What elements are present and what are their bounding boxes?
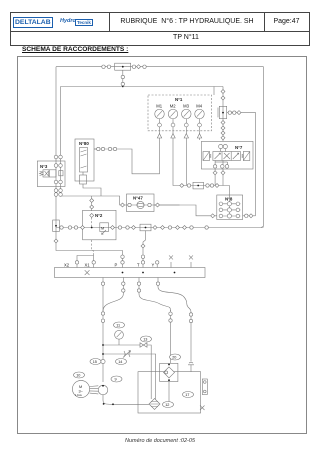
electric motor (72, 380, 89, 397)
svg-text:17: 17 (185, 393, 189, 397)
coupling (101, 312, 104, 315)
port below block (137, 282, 140, 292)
port below block (156, 282, 159, 285)
svg-text:M2: M2 (170, 103, 176, 108)
footer (0, 438, 320, 444)
port coupling X2 (75, 261, 78, 268)
page frame (17, 56, 307, 434)
svg-text:13: 13 (143, 338, 147, 342)
wire: right vertical of loop (261, 67, 264, 228)
unit N3 box (37, 161, 65, 187)
svg-text:N°80: N°80 (79, 141, 89, 146)
check valve bridge box (160, 363, 178, 381)
coupling (121, 255, 124, 258)
wire: throttle line (103, 354, 156, 399)
throttle valve 14 (123, 351, 131, 358)
wire: N7 bottom ports down (215, 169, 223, 186)
coupling (111, 226, 115, 230)
wire: bridge box to tank (168, 382, 170, 404)
wire: gauge column1 to N80 loop (94, 141, 160, 174)
hose: T port below block curving right (139, 278, 171, 312)
coupling (148, 203, 151, 206)
coupling (190, 226, 193, 229)
shut-off valve on bus (140, 224, 151, 231)
junction (174, 272, 176, 274)
wire: drop from top-line valve to second line (122, 70, 124, 87)
wire: main loop top line (56, 66, 264, 68)
label 17 (183, 392, 194, 398)
coupling pair on N3 lines (54, 164, 62, 168)
wire: N8 row3 out to right (243, 215, 256, 217)
blocked port X1 inside block (85, 270, 90, 275)
label 12 (163, 402, 174, 408)
coupling (137, 65, 141, 69)
wire: N7 below valve (215, 161, 227, 165)
port labels (64, 263, 155, 268)
wire: P port below block down to pump line (102, 278, 104, 383)
coupling (132, 226, 136, 230)
label 20 (170, 354, 181, 360)
coupling (213, 165, 216, 168)
port below block (122, 282, 125, 292)
coupling pair on N3 lines (54, 180, 62, 184)
label 9 (111, 376, 122, 382)
pressure relief valve N3 (40, 170, 64, 177)
coupling (233, 111, 236, 114)
junction (142, 272, 144, 274)
check coupling under gauge M3 (184, 131, 188, 141)
pressure gauge on pump line (115, 330, 124, 339)
coupling (221, 171, 225, 175)
svg-text:M4: M4 (196, 103, 202, 108)
panel N1 (dashed box) (148, 95, 212, 131)
wire: stub into N1 panel (213, 87, 215, 96)
coupling (90, 205, 94, 209)
coupling (221, 90, 225, 94)
coupling (189, 313, 192, 316)
junction (102, 353, 104, 355)
coupling (211, 214, 215, 218)
junction (102, 344, 104, 346)
svg-text:14: 14 (118, 360, 122, 364)
unit N80 box (75, 139, 94, 181)
coupling below top valve (121, 75, 124, 78)
coupling (74, 226, 77, 229)
coupling (221, 96, 225, 100)
label 15 (90, 359, 101, 365)
label 10 (74, 372, 85, 378)
coupling (206, 184, 209, 187)
label 11 (114, 322, 125, 328)
coupling (101, 319, 104, 322)
port coupling X1 (92, 261, 95, 268)
coupling (101, 359, 105, 363)
wire: drop to N2 (91, 196, 93, 211)
coupling (249, 214, 253, 218)
valve 13 (140, 343, 147, 347)
coupling (161, 226, 165, 230)
DELTALAB logo (13, 17, 54, 29)
coupling (228, 111, 231, 114)
header table (10, 12, 310, 46)
hose: Y port below block wiggle to breather line (158, 278, 191, 314)
wire: gauge tee line (103, 345, 151, 399)
coupling (205, 226, 208, 229)
wire: N80 right line (94, 148, 97, 150)
wire: vertical C to breather (190, 312, 192, 362)
shut-off valve on top line (115, 63, 131, 70)
coupling (126, 226, 129, 229)
flow meter N47 (137, 201, 144, 208)
svg-text:P: P (115, 263, 118, 268)
wire: line through small valve to N8 top (173, 141, 229, 195)
coupling (215, 184, 219, 188)
wire: second left vertical (to N3) (60, 87, 62, 197)
coupling (132, 65, 135, 68)
pressure gauge M3 (182, 103, 192, 130)
unit N2 box (83, 210, 116, 240)
svg-text:M3: M3 (183, 103, 189, 108)
coupling (97, 147, 100, 150)
shut-off valve on link line (193, 182, 204, 189)
svg-text:X2: X2 (64, 263, 70, 268)
svg-text:X1: X1 (85, 263, 91, 268)
wire: gauge stem (118, 339, 120, 345)
wire: N7 feed vertical (222, 87, 224, 142)
check coupling under gauge M2 (171, 131, 175, 141)
coupling (90, 213, 94, 217)
coupling (180, 184, 184, 188)
wire: N47 out to N8 row3 (154, 205, 217, 216)
wire: left vertical main (56, 67, 123, 268)
svg-text:12: 12 (165, 403, 169, 407)
drain plug (200, 406, 205, 411)
coupling (210, 184, 213, 187)
wire: gauge column3 drop (185, 141, 187, 186)
coupling (169, 319, 172, 322)
coupling (108, 147, 111, 150)
svg-text:N°47: N°47 (133, 196, 143, 201)
coupling (221, 165, 229, 169)
junction (103, 403, 105, 405)
svg-text:N°2: N°2 (95, 213, 103, 218)
couplings at N7 top (219, 144, 228, 151)
coupling (90, 199, 94, 203)
coupling motor-pump (90, 386, 99, 394)
pressure gauge M4 (195, 103, 205, 130)
pressure gauge M2 (168, 103, 178, 130)
coupling (68, 226, 71, 229)
label 14 (116, 359, 127, 365)
tank (138, 372, 201, 413)
coupling (213, 171, 217, 175)
coupling below top valve (121, 82, 124, 85)
accumulator valve block N80 (80, 172, 87, 184)
coupling (176, 226, 180, 230)
check coupling under gauge M4 (197, 131, 201, 140)
svg-text:N°8: N°8 (225, 197, 233, 202)
svg-text:T: T (137, 263, 140, 268)
pilot dashed inside N2 (91, 218, 93, 228)
coupling pair on N3 lines (54, 155, 62, 159)
svg-text:M: M (79, 385, 82, 389)
port coupling P (121, 261, 124, 264)
unit N8 box (217, 195, 243, 220)
port below block (101, 282, 104, 285)
suction filter (149, 399, 160, 410)
coupling (60, 226, 63, 229)
wire: second horizontal line (61, 86, 224, 88)
coupling (153, 226, 157, 230)
svg-text:15: 15 (93, 360, 97, 364)
wire: N80 bottom stub (83, 184, 101, 196)
coupling (81, 226, 85, 230)
coupling (221, 131, 225, 135)
svg-text:N°3: N°3 (40, 164, 48, 169)
coupling (245, 214, 248, 217)
coupling (102, 65, 105, 68)
junction (91, 227, 93, 229)
wire: N47 feed line (61, 196, 180, 205)
hydraulic pump (98, 385, 108, 395)
svg-text:N°7: N°7 (235, 145, 243, 150)
coupling (54, 239, 58, 243)
coupling (221, 121, 225, 125)
svg-text:M1: M1 (156, 103, 162, 108)
coupling (187, 184, 190, 187)
coupling (156, 203, 160, 207)
section title (22, 46, 128, 53)
junction (112, 403, 114, 405)
svg-text:10: 10 (76, 374, 80, 378)
coupling (107, 65, 110, 68)
wire: bottom bus (56, 227, 264, 229)
coupling (169, 312, 172, 315)
wire: T column from bus component to block (143, 230, 146, 267)
wire: X2-X1 link (77, 256, 94, 261)
coupling (101, 147, 104, 150)
wire: pilot line dashed from N2 to X1 (92, 240, 94, 256)
oil level gauge (202, 379, 207, 395)
coupling pair on N3 lines (54, 193, 62, 197)
junction (122, 86, 124, 88)
unit N47 box (127, 194, 155, 212)
shut-off valve on left vertical (53, 220, 60, 232)
unit N7 box (201, 141, 253, 169)
port couplings T (141, 244, 145, 264)
coupling (143, 65, 146, 68)
svg-text:20: 20 (172, 356, 176, 360)
coupling (128, 203, 131, 206)
valve N7 symbol (203, 152, 250, 161)
svg-text:M: M (101, 227, 104, 231)
coupling (121, 203, 125, 207)
svg-text:1.1kw: 1.1kw (75, 393, 82, 397)
coupling (189, 319, 192, 322)
check coupling under gauge M1 (157, 131, 161, 141)
coupling (113, 147, 116, 150)
svg-text:9: 9 (115, 378, 117, 382)
coupling (221, 136, 225, 140)
coupling (237, 111, 241, 115)
distribution block (55, 268, 206, 278)
coupling (221, 126, 225, 130)
pressure switch N2 (100, 223, 109, 235)
flow control valve on N7 feed (218, 106, 227, 118)
svg-text:Y: Y (152, 263, 155, 268)
breather cap (188, 362, 194, 372)
accumulator body N80 (80, 148, 88, 173)
coupling (183, 226, 187, 230)
coupling (118, 226, 121, 229)
pressure gauge M1 (155, 103, 165, 130)
wire: pump to suction arc (103, 395, 150, 405)
plugged port x (169, 255, 173, 267)
label 13 (141, 336, 152, 342)
manifold N8 grid (219, 195, 241, 218)
svg-text:11: 11 (116, 324, 120, 328)
junction (122, 272, 124, 274)
wire: vertical B to bridge box (170, 310, 172, 363)
wire: N7 side tap to right vertical (227, 113, 256, 216)
svg-text:N°1: N°1 (175, 97, 183, 102)
plugged port x (189, 255, 193, 267)
hose: port2 curving to pump line (103, 278, 123, 312)
coupling pair on N3 lines (54, 189, 62, 193)
port coupling Y (156, 261, 159, 268)
coupling (168, 226, 171, 229)
